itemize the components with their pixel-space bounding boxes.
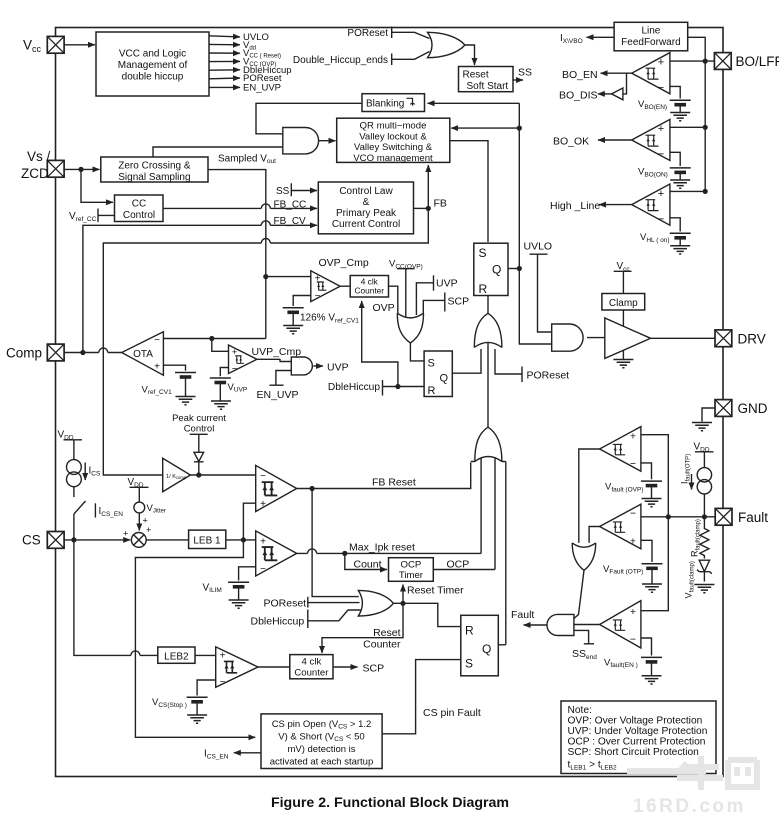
- svg-text:Zero Crossing &: Zero Crossing &: [118, 161, 191, 172]
- svg-text:&: &: [363, 197, 370, 208]
- node VCC(Reset) output label: [243, 48, 281, 60]
- wire OCP output to OR2: [433, 569, 495, 571]
- node POReset input to soft-start OR: [347, 27, 391, 40]
- wire VCC pin to management block: [64, 44, 95, 46]
- wire LFF output to BO node: [688, 37, 706, 61]
- wire LEB1 node down to CS detection box: [135, 540, 255, 737]
- svg-text:+: +: [143, 516, 148, 526]
- wire FB_CC to control law: [163, 204, 317, 209]
- wire counter output OVP to OR3: [389, 286, 398, 313]
- wire fault OR output to AND: [574, 570, 584, 618]
- wire CS stop minus to VCS(Stop): [197, 680, 216, 696]
- node Vdd output label: [243, 40, 256, 52]
- wire FB output: [414, 206, 431, 211]
- node Peak current Control: [172, 413, 226, 435]
- node EN_UVP tick: [257, 385, 299, 401]
- svg-text:+: +: [315, 274, 321, 285]
- svg-text:FB_CC: FB_CC: [274, 200, 307, 211]
- amplifier driver DRV: [605, 318, 651, 358]
- wire UVP into OR3: [416, 283, 433, 315]
- wire blanking output to ZCD AND: [256, 103, 362, 134]
- svg-text:+: +: [658, 188, 664, 200]
- svg-text:Figure 2. Functional Block Dia: Figure 2. Functional Block Diagram: [271, 795, 509, 811]
- source Vjitter: [134, 502, 166, 525]
- node DbleHiccup output label: [243, 65, 292, 76]
- wire fault EN minus to Vfault(EN): [641, 638, 652, 656]
- block CC Control: [115, 195, 164, 222]
- wire CS pin to adder: [64, 537, 130, 542]
- node SSend tick: [572, 644, 597, 661]
- wire FB up into QR block: [427, 165, 429, 208]
- svg-text:S: S: [465, 657, 473, 671]
- svg-text:−: −: [232, 364, 238, 375]
- node VDD of Ifault: [694, 441, 714, 467]
- pin GND: [692, 400, 768, 431]
- svg-text:FB Reset: FB Reset: [372, 477, 416, 489]
- wire OR2 input3 from OCP: [494, 459, 496, 570]
- ground of Vfault(OVP): [642, 486, 662, 506]
- ground of VBO(EN): [670, 106, 690, 121]
- block Control Law and Primary Peak Current Control: [318, 182, 413, 234]
- block CS pin open/short detection: [261, 714, 382, 769]
- wire OVP_Cmp to counter: [340, 285, 350, 287]
- node FB_CC label: [274, 200, 307, 211]
- svg-text:−: −: [630, 508, 636, 520]
- svg-text:CS pin Fault: CS pin Fault: [423, 707, 481, 719]
- wire OTA plus to Vref_CV1: [163, 365, 185, 371]
- block LEB1: [189, 530, 226, 548]
- wire UVP_Cmp to AND: [257, 359, 291, 361]
- node FB Reset label: [372, 477, 416, 489]
- battery VHL(on): [640, 232, 691, 244]
- svg-text:UVP: UVP: [436, 278, 458, 290]
- comparator Vfault(EN): [600, 601, 641, 648]
- svg-text:Comp: Comp: [6, 345, 42, 360]
- node DbleHiccup tick at latch2 R: [328, 380, 383, 396]
- ground of VHL(on): [670, 239, 690, 254]
- adder CS plus jitter: [123, 525, 151, 547]
- battery VILIM: [203, 582, 250, 594]
- svg-text:DbleHiccup: DbleHiccup: [251, 616, 305, 628]
- wire ZCD pin to zero crossing block: [64, 167, 99, 172]
- svg-text:Line: Line: [641, 26, 660, 37]
- wire UVP output: [313, 361, 348, 373]
- node Ix_VBO label: [560, 33, 583, 45]
- pin Vs/ZCD: [47, 160, 64, 177]
- amplifier 1/Kcomp: [163, 458, 191, 491]
- wire POReset to OR1 right input: [495, 349, 522, 374]
- wire UVLO to driver AND: [538, 254, 552, 332]
- svg-text:Peak current: Peak current: [172, 413, 226, 424]
- wire FB_CV from comp riser: [83, 221, 317, 352]
- block Clamp: [602, 294, 645, 311]
- svg-text:R: R: [465, 624, 474, 638]
- battery VUVP: [210, 378, 247, 394]
- block Note: [561, 701, 716, 774]
- wire AND to driver: [587, 337, 605, 339]
- block QR multi-mode valley management: [337, 118, 450, 164]
- block Blanking: [362, 94, 425, 112]
- watermark character wang: [728, 760, 757, 787]
- svg-text:−: −: [658, 149, 664, 161]
- zener diode Vfault(clamp): [697, 560, 712, 581]
- wire QR output to latch S riser: [450, 141, 488, 242]
- svg-text:−: −: [630, 458, 636, 470]
- svg-text:Q: Q: [482, 642, 491, 656]
- block Zero Crossing and Signal Sampling: [101, 157, 208, 183]
- node Ifault(OTP) label rotated: [680, 454, 692, 490]
- svg-text:OCP: OCP: [447, 558, 470, 570]
- svg-text:R: R: [479, 282, 488, 296]
- node Comp pin label: [6, 345, 42, 360]
- svg-text:CS: CS: [22, 533, 41, 548]
- wire latch2 Q to OR1: [452, 349, 481, 373]
- wire CS pin fault to latch3 S: [382, 660, 461, 734]
- svg-text:Counter: Counter: [294, 667, 329, 678]
- wire LEB2 to comparator: [195, 654, 216, 656]
- wire sampled Vout riser: [208, 170, 268, 339]
- wire Comp line to OTA: [64, 348, 122, 355]
- svg-text:SCP: SCP: [363, 662, 385, 674]
- node CS pin label: [22, 533, 41, 548]
- wire fault OVP minus to Vfault(OVP): [641, 463, 652, 479]
- wire driver to DRV pin: [651, 337, 715, 339]
- wire OR1 output to latch R: [487, 296, 489, 314]
- comparator Vfault(OTP): [600, 504, 641, 549]
- watermark character niu: [677, 756, 723, 790]
- wire sampled Vout to OVP_Cmp plus: [266, 276, 311, 278]
- wire Q to QR block input: [451, 127, 519, 129]
- node DbleHiccup tick at OCP OR: [251, 610, 308, 629]
- node VCC(OVP) output label: [243, 56, 276, 68]
- svg-text:+: +: [123, 529, 128, 539]
- svg-text:−: −: [630, 633, 636, 645]
- wire ZCD demag signal to AND: [153, 147, 283, 157]
- wire FB reset riser to OCP OR: [312, 489, 359, 597]
- svg-text:OVP: OVP: [373, 302, 395, 314]
- wire OR output to latch3 R: [393, 601, 460, 627]
- wire Max_Ipk reset line to OR2: [297, 549, 481, 556]
- svg-text:FeedForward: FeedForward: [621, 37, 680, 48]
- wire POReset to OR: [392, 32, 430, 38]
- svg-text:UVP: UVP: [327, 361, 349, 373]
- node Vcc of clamp: [614, 261, 632, 294]
- svg-text:Control Law: Control Law: [339, 186, 393, 197]
- wire fault OVP output to OR: [579, 449, 600, 543]
- svg-text:POReset: POReset: [264, 597, 307, 609]
- or-gate U_faultor (pointing down): [572, 543, 596, 570]
- block OCP Timer: [389, 558, 434, 582]
- wire BO_EN minus to VBO(EN): [670, 86, 680, 98]
- svg-text:−: −: [658, 82, 664, 94]
- ground of Vfault(EN): [642, 663, 662, 684]
- latch SR U_drv (S top Q right R bottom): [474, 243, 508, 296]
- svg-text:−: −: [315, 291, 321, 302]
- and-gate U_uvp: [291, 357, 312, 375]
- node FB label: [434, 198, 447, 210]
- or-gate U_latchset (pointing down): [397, 313, 423, 343]
- svg-text:Signal Sampling: Signal Sampling: [118, 172, 190, 183]
- svg-text:ZCD: ZCD: [21, 166, 49, 181]
- node Rfault(clamp) label rotated: [690, 519, 702, 557]
- svg-text:+: +: [658, 57, 664, 69]
- node Count label: [354, 558, 382, 570]
- ground of driver: [613, 350, 633, 367]
- resistor Rfault(clamp): [700, 517, 709, 559]
- or-gate U_ocp_reset: [358, 590, 393, 616]
- wire DbleHiccup to latch2 R: [383, 384, 425, 389]
- node Double_Hiccup_ends label: [293, 54, 392, 66]
- ground of zener: [694, 585, 714, 593]
- svg-text:DRV: DRV: [738, 331, 766, 346]
- comparator BO_OK: [632, 119, 670, 160]
- svg-text:FB_CV: FB_CV: [274, 216, 307, 227]
- svg-text:UVLO: UVLO: [524, 240, 553, 252]
- battery Vref_CV1: [142, 373, 197, 397]
- ground of VCS(Stop): [187, 703, 207, 724]
- svg-text:Fault: Fault: [738, 510, 768, 525]
- wire fault OTP plus to Vfault(OTP): [641, 540, 652, 562]
- svg-text:−: −: [154, 335, 160, 346]
- svg-text:QR multi−mode: QR multi−mode: [360, 120, 427, 131]
- svg-text:Valley lockout &: Valley lockout &: [359, 131, 427, 142]
- comparator UVP_Cmp: [229, 345, 302, 375]
- node OCP label: [447, 558, 470, 570]
- node ICS_EN tick at switch: [95, 503, 123, 518]
- svg-text:Control: Control: [184, 424, 215, 435]
- block VCC and Logic Management of double hiccup: [96, 32, 209, 96]
- svg-text:+: +: [260, 537, 266, 548]
- node SS output: [513, 67, 532, 81]
- wire Ix_VBO arrow from Line FeedForward: [587, 36, 615, 38]
- wire FB reset comp plus from LEB1 node: [243, 503, 255, 540]
- svg-text:+: +: [220, 650, 226, 661]
- or-gate U_reset1 (pointing up): [474, 313, 502, 347]
- svg-text:−: −: [260, 471, 266, 482]
- wire BO pin riser feeding comparators: [670, 59, 715, 194]
- current source ICS: [67, 460, 82, 487]
- block 4 clk Counter OVP: [350, 276, 388, 298]
- wire Reset Timer arrow: [403, 584, 464, 603]
- svg-text:BO/LFF: BO/LFF: [736, 54, 779, 69]
- wire BO_OK output: [553, 135, 632, 147]
- watermark character yi: [627, 768, 706, 774]
- switch ICS_EN: [74, 487, 86, 540]
- svg-text:mV) detection is: mV) detection is: [287, 744, 355, 755]
- wire OTA minus sampled Vout line: [163, 338, 265, 340]
- node POReset tick near latch: [522, 367, 569, 383]
- svg-text:4 clk: 4 clk: [302, 657, 322, 668]
- battery Vfault(EN): [604, 657, 662, 669]
- wire adder to LEB1: [146, 539, 188, 541]
- node POReset tick at OCP OR: [264, 597, 308, 610]
- svg-text:OCP: OCP: [401, 560, 422, 571]
- battery VBO(EN): [638, 99, 691, 111]
- svg-text:−: −: [260, 564, 266, 575]
- wire blanking input from Q riser: [428, 102, 520, 104]
- wire VCC(OVP) into OR3: [405, 269, 407, 318]
- node UVLO tick: [524, 240, 553, 254]
- svg-text:CC: CC: [132, 198, 146, 209]
- wire latch3 Q to OR2 riser: [498, 644, 506, 646]
- diode peak current: [194, 434, 204, 475]
- pin CS: [47, 532, 64, 549]
- svg-text:UVP: Under Voltage Protection: UVP: Under Voltage Protection: [568, 726, 708, 737]
- wire ZCD branch to CC control: [81, 169, 113, 202]
- battery Vfault(OTP): [603, 564, 663, 576]
- svg-text:VCO management: VCO management: [353, 153, 433, 164]
- node POReset output label: [243, 73, 282, 84]
- wire CS stop comp to counter: [258, 666, 290, 668]
- svg-text:Blanking: Blanking: [366, 99, 404, 110]
- svg-text:BO_EN: BO_EN: [562, 69, 598, 81]
- node SCP tick at OR3: [445, 293, 469, 312]
- svg-text:+: +: [630, 536, 636, 548]
- svg-text:16RD.com: 16RD.com: [633, 796, 746, 817]
- wire High_Line minus to VHL(on): [670, 218, 680, 232]
- svg-text:GND: GND: [738, 401, 768, 416]
- pin Comp: [47, 344, 64, 361]
- svg-text:EN_UVP: EN_UVP: [243, 83, 281, 94]
- node VCC(OVP) tick: [389, 259, 423, 271]
- and-gate U_drvand: [552, 324, 583, 351]
- wire DbleHiccup to OR input: [308, 610, 361, 621]
- node Vref_CC: [69, 209, 115, 223]
- svg-text:Reset: Reset: [463, 70, 489, 81]
- svg-text:−: −: [220, 677, 226, 688]
- svg-text:Management of: Management of: [118, 60, 188, 71]
- wire OR to Reset Soft Start: [465, 45, 475, 65]
- svg-text:EN_UVP: EN_UVP: [257, 389, 299, 401]
- wire High_Line output: [550, 200, 632, 212]
- wire BO_OK minus to VBO(ON): [670, 152, 680, 166]
- svg-text:S: S: [479, 246, 487, 260]
- node UVP tick at OR3: [434, 275, 458, 290]
- svg-text:VCC and Logic: VCC and Logic: [119, 49, 186, 60]
- wire BO_EN output: [562, 69, 632, 81]
- wire Count to OCP timer: [345, 553, 387, 569]
- wire LEB1 to Max_Ipk comparator: [226, 537, 256, 542]
- svg-text:Max_Ipk reset: Max_Ipk reset: [349, 542, 415, 554]
- latch SR U_scp (R top Q right S bottom): [461, 615, 499, 676]
- comparator FB reset: [256, 465, 297, 511]
- svg-text:POReset: POReset: [347, 28, 388, 39]
- svg-text:BO_OK: BO_OK: [553, 135, 589, 147]
- wire FB Reset output to OR2: [297, 463, 471, 492]
- wire Q riser vertical: [517, 103, 552, 344]
- wire OR3 to latch2 S: [410, 343, 424, 361]
- svg-text:Double_Hiccup_ends: Double_Hiccup_ends: [293, 55, 388, 66]
- wire AND to QR block: [319, 140, 336, 142]
- or-gate U_softstart: [428, 32, 465, 57]
- svg-text:SCP: SCP: [448, 296, 470, 308]
- wire OR2 output riser into OR1: [487, 343, 489, 428]
- svg-text:FB: FB: [434, 198, 447, 210]
- node FB_CV label: [274, 216, 307, 227]
- pin BO/LFF: [714, 53, 779, 70]
- node OVP label: [373, 302, 395, 314]
- wire fault EN output to AND: [574, 624, 600, 626]
- svg-text:Control: Control: [123, 210, 155, 221]
- node EN_UVP output label: [243, 83, 281, 94]
- node SS input label: [276, 183, 317, 197]
- svg-text:BO_DIS: BO_DIS: [559, 89, 598, 101]
- battery 126% Vref_CV1: [283, 308, 360, 325]
- comparator High_Line: [632, 184, 670, 225]
- svg-text:OVP: Over Voltage Protection: OVP: Over Voltage Protection: [568, 716, 703, 727]
- node VDD of jitter: [128, 477, 149, 502]
- wire OR2 input4 from SCP latch Q: [505, 462, 507, 645]
- node CS pin Fault label: [423, 707, 481, 719]
- svg-text:Valley Switching &: Valley Switching &: [354, 142, 433, 153]
- svg-text:+: +: [146, 525, 151, 535]
- wire OVP_Cmp minus to 126% ref: [293, 296, 311, 307]
- pin DRV: [715, 330, 766, 347]
- wire Reset Counter line: [322, 603, 403, 653]
- svg-text:SCP: Short Circuit Protectio: SCP: Short Circuit Protection: [568, 747, 699, 758]
- wire SCP into OR3: [423, 300, 445, 313]
- and-gate U_fault (pointing left): [547, 614, 574, 635]
- svg-text:LEB 1: LEB 1: [193, 536, 221, 547]
- wire clamp to driver: [622, 310, 624, 327]
- svg-text:+: +: [260, 499, 266, 510]
- ground of Vfault(OTP): [642, 569, 662, 592]
- border of functional block: [56, 28, 724, 777]
- block Reset Soft Start: [459, 67, 514, 92]
- wire Max_Ipk minus to VILIM: [239, 567, 256, 581]
- svg-text:Note:: Note:: [568, 705, 592, 716]
- and-gate U_zcd_blank: [283, 128, 319, 154]
- svg-text:DbleHiccup: DbleHiccup: [328, 382, 380, 393]
- node VDD of ICS source: [58, 429, 83, 460]
- svg-text:Q: Q: [440, 373, 449, 385]
- wire Kcomp output to FB reset comparator: [190, 472, 255, 477]
- wire SCP output: [333, 662, 384, 674]
- svg-text:SS: SS: [276, 186, 290, 197]
- block LEB2: [158, 647, 195, 663]
- svg-text:S: S: [428, 358, 435, 370]
- or-gate U_reset2 (pointing up): [471, 427, 506, 461]
- svg-text:CS pin Open (VCS > 1.2: CS pin Open (VCS > 1.2: [272, 719, 372, 731]
- battery VBO(ON): [638, 167, 691, 179]
- wire Fault output arrow: [511, 609, 547, 625]
- svg-text:Reset Timer: Reset Timer: [407, 584, 464, 596]
- ground of Vref_CV1: [176, 378, 196, 405]
- svg-text:double hiccup: double hiccup: [122, 72, 184, 83]
- block 4 clk Counter SCP: [290, 655, 333, 679]
- node Reset Counter label: [363, 627, 401, 651]
- comparator BO_EN: [632, 53, 670, 94]
- wire FB down to VKcomp input: [103, 208, 428, 475]
- wire Q output to riser: [508, 268, 519, 270]
- svg-text:Soft Start: Soft Start: [467, 81, 509, 92]
- ground of 126% ref: [283, 313, 303, 334]
- wire ICS_EN output: [204, 749, 261, 761]
- latch SR U_fault2 (S/Q/R small): [424, 351, 452, 397]
- node ICS label and arrow: [85, 463, 101, 481]
- wire POReset to OR input: [308, 602, 360, 604]
- wire CS riser to LEB2: [74, 540, 158, 656]
- node Sampled Vout label: [218, 154, 276, 166]
- wire sampled Vout to UVP_Cmp plus: [209, 336, 228, 351]
- svg-text:V) & Short (VCS < 50: V) & Short (VCS < 50: [278, 732, 364, 744]
- wire fault line to Fault pin: [641, 514, 715, 519]
- block Line FeedForward: [614, 22, 688, 51]
- svg-text:SS: SS: [518, 67, 532, 79]
- svg-text:OVP_Cmp: OVP_Cmp: [319, 257, 369, 269]
- pin VCC: [47, 36, 64, 53]
- wire Vjitter to adder: [138, 513, 140, 531]
